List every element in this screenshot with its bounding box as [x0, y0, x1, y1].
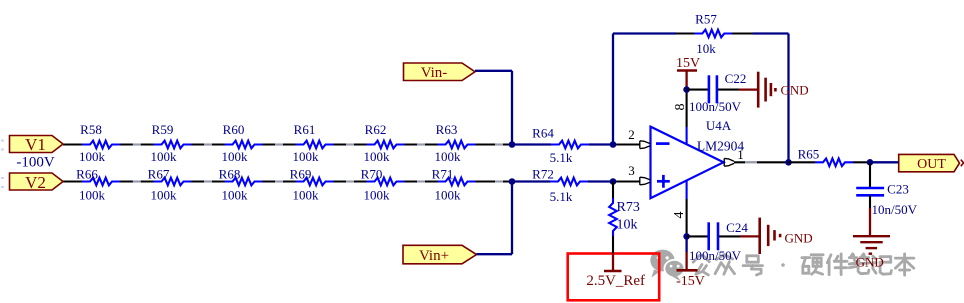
junction: feedback at pin 2 node: [610, 141, 617, 148]
svg-text:GND: GND: [785, 231, 813, 246]
wire: feedback top right segment: [753, 32, 789, 34]
power +15V bar: [677, 69, 697, 72]
svg-text:100k: 100k: [151, 149, 178, 164]
pin 3 input arrow: [640, 177, 651, 185]
resistor R73 10k: [609, 198, 640, 236]
net label OUT: [899, 154, 960, 171]
svg-text:R71: R71: [432, 167, 454, 182]
wire: R64 to inverting-input node: [589, 143, 613, 145]
svg-text:100n/50V: 100n/50V: [689, 248, 742, 263]
svg-text:R60: R60: [223, 122, 245, 137]
svg-text:R65: R65: [798, 147, 820, 162]
watermark: WeChat logo big bubble: [650, 250, 674, 278]
grid artifacts (decorative): [1, 140, 757, 189]
wire: R65 to output node: [853, 161, 870, 163]
wire: Vin- flag to top row: [475, 70, 512, 72]
wire: V1 net horizontal segments (top row): [63, 143, 512, 145]
wire: Vin+ node to R72: [512, 180, 550, 182]
watermark text 公众号·硬件笔记本: [693, 254, 914, 275]
wire: feedback node to R65: [789, 161, 816, 163]
svg-text:15V: 15V: [676, 56, 700, 71]
svg-text:R64: R64: [532, 126, 554, 141]
wire: Vin- node to R64: [512, 143, 551, 145]
wire: R57 right lead: [732, 32, 753, 34]
svg-text:R63: R63: [436, 122, 458, 137]
junction: output node: [867, 159, 874, 166]
svg-text:5.1k: 5.1k: [550, 150, 573, 165]
resistor R72 5.1k: [532, 167, 588, 205]
svg-text:100k: 100k: [222, 149, 249, 164]
wire: feedback left riser: [612, 34, 614, 145]
svg-text:100k: 100k: [79, 188, 106, 203]
op-amp U4A LM2904 triangle: [651, 127, 724, 199]
resistor R69 100k: [290, 167, 334, 203]
pin 4 wire: [686, 181, 688, 199]
resistor R63 100k: [435, 122, 476, 164]
resistor R67 100k: [148, 167, 192, 203]
svg-text:100k: 100k: [435, 188, 462, 203]
junction: feedback / output: [785, 159, 792, 166]
pin 1 output arrow: [724, 158, 734, 166]
svg-text:C24: C24: [726, 220, 748, 235]
svg-text:R72: R72: [532, 167, 554, 182]
svg-text:2: 2: [628, 127, 635, 142]
svg-text:-100V: -100V: [16, 154, 54, 170]
wire: Vin+ flag to bottom row: [477, 253, 513, 255]
wire: C24 to GND: [719, 235, 740, 237]
ground symbol (rotated, C22): [758, 72, 775, 108]
capacitor C22 plates: [709, 75, 717, 103]
wire: output node to OUT flag: [870, 161, 899, 163]
wire: junction to C24: [687, 235, 708, 237]
pin 8 wire: [686, 90, 688, 127]
resistor R61 100k: [293, 122, 334, 164]
wire: V2 net horizontal segments (bottom row): [63, 180, 512, 182]
svg-text:10n/50V: 10n/50V: [872, 202, 918, 217]
port V2: [10, 173, 64, 190]
svg-text:4: 4: [672, 212, 687, 219]
junction: Vin- joins top row: [509, 141, 516, 148]
svg-text:R61: R61: [294, 122, 316, 137]
resistor R58 100k: [79, 122, 120, 164]
svg-text:C22: C22: [725, 71, 747, 86]
capacitor C24 plates: [709, 222, 718, 250]
junction: -15V / C24 / pin 4: [683, 233, 690, 240]
svg-text:C23: C23: [887, 182, 909, 197]
svg-text:Vin+: Vin+: [419, 248, 449, 264]
wire: op-amp output to feedback node: [734, 161, 789, 163]
resistor R70 100k: [361, 167, 405, 203]
wire: pin 3 stub: [613, 180, 640, 182]
junction: 15V / C22 / pin 8: [683, 86, 690, 93]
wire: C22 to GND: [718, 89, 739, 91]
svg-text:U4A: U4A: [706, 118, 732, 133]
ground symbol (down, C23): [853, 236, 890, 254]
resistor R68 100k: [219, 167, 263, 203]
capacitor C23 plates: [856, 188, 884, 195]
wire: pin 2 stub: [613, 143, 640, 145]
svg-text:R70: R70: [361, 167, 383, 182]
svg-text:100k: 100k: [364, 188, 391, 203]
svg-text:R57: R57: [695, 12, 717, 27]
resistor R57 10k: [694, 12, 732, 57]
svg-text:R59: R59: [152, 122, 174, 137]
power -15V bar: [685, 236, 687, 252]
svg-text:100k: 100k: [222, 188, 249, 203]
resistor R62 100k: [364, 122, 405, 164]
wire: R73 to 2.5V_Ref: [612, 236, 614, 253]
resistor R64 5.1k: [532, 126, 589, 166]
wire: feedback top left segment: [613, 32, 676, 34]
highlight box around 2.5V_Ref: [568, 254, 660, 301]
pin 2 input arrow: [640, 141, 651, 149]
svg-text:OUT: OUT: [917, 157, 946, 172]
svg-text:V2: V2: [25, 173, 46, 192]
power 2.5V_Ref bar: [612, 253, 614, 271]
junction: R73 at pin 3 node: [610, 178, 617, 185]
net label Vin-: [404, 63, 476, 81]
svg-text:100k: 100k: [293, 188, 320, 203]
wire: R57 left lead: [676, 32, 695, 34]
wire: output node down to C23: [869, 162, 871, 187]
ground symbol (rotated, C24): [760, 218, 780, 254]
svg-text:100k: 100k: [435, 149, 462, 164]
svg-text:R68: R68: [219, 167, 241, 182]
resistor R59 100k: [151, 122, 192, 164]
resistor R66 100k: [76, 167, 120, 203]
wire: feedback right riser: [787, 34, 789, 163]
svg-text:100k: 100k: [79, 149, 106, 164]
svg-text:R66: R66: [76, 167, 98, 182]
svg-text:R62: R62: [365, 122, 387, 137]
svg-text:10k: 10k: [696, 41, 716, 56]
resistor R60 100k: [222, 122, 263, 164]
svg-text:100k: 100k: [364, 149, 391, 164]
svg-text:R58: R58: [80, 122, 102, 137]
svg-text:GND: GND: [781, 82, 809, 97]
wire: junction to C22: [687, 89, 708, 91]
svg-text:5.1k: 5.1k: [550, 189, 573, 204]
svg-text:2.5V_Ref: 2.5V_Ref: [586, 273, 645, 289]
svg-text:R73: R73: [617, 200, 640, 215]
resistor R71 100k: [432, 167, 476, 203]
svg-text:LM2904: LM2904: [697, 139, 745, 154]
svg-text:V1: V1: [25, 135, 46, 154]
svg-text:R69: R69: [290, 167, 312, 182]
svg-text:R67: R67: [148, 167, 170, 182]
svg-text:Vin-: Vin-: [421, 65, 448, 81]
net label Vin+: [403, 245, 477, 263]
wire: C23 to ground: [869, 195, 871, 208]
svg-text:100k: 100k: [293, 149, 320, 164]
svg-text:3: 3: [628, 163, 635, 178]
junction: Vin+ joins bottom row: [509, 178, 516, 185]
port V1: [10, 136, 64, 153]
resistor R65: [798, 147, 853, 167]
svg-text:-15V: -15V: [676, 274, 705, 289]
svg-text:100k: 100k: [151, 188, 178, 203]
svg-text:GND: GND: [856, 254, 884, 269]
svg-text:100n/50V: 100n/50V: [689, 99, 742, 114]
watermark: WeChat logo small bubble: [664, 260, 684, 282]
svg-text:10k: 10k: [617, 217, 638, 232]
wire: R72 to non-inverting-input node: [588, 180, 613, 182]
wire: pin3 node down to R73: [612, 182, 614, 199]
